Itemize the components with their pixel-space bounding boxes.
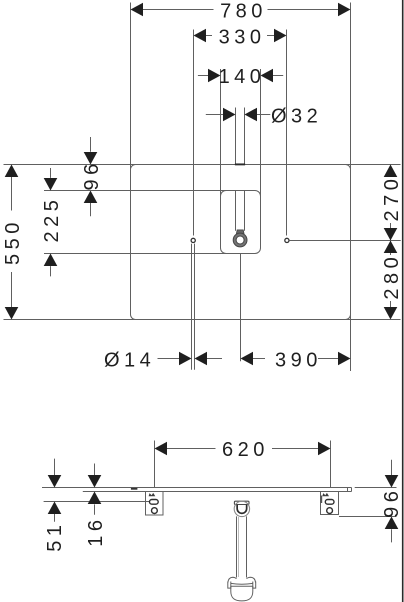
- left bracket hole: [152, 508, 158, 514]
- supply pipe edge lines (O32, plan): [235, 108, 237, 165]
- svg-text:780: 780: [220, 1, 267, 23]
- left bracket slot: [150, 500, 159, 505]
- siphon joint line: [231, 585, 253, 587]
- siphon cup: [231, 586, 253, 601]
- right bracket hole: [327, 508, 333, 514]
- svg-text:270: 270: [381, 175, 403, 222]
- faucet centre extension line: [240, 254, 242, 362]
- faucet keyway tab: [236, 230, 244, 234]
- drain pipe (front): [236, 516, 238, 577]
- siphon rim: [228, 577, 256, 582]
- O14 hole projection lines: [191, 244, 193, 370]
- left mounting hole: [191, 238, 195, 242]
- svg-text:140: 140: [219, 66, 266, 88]
- right bracket screw head: [322, 493, 329, 496]
- basin console outline (top view): [131, 165, 351, 320]
- page border right edge: [402, 0, 404, 602]
- left bracket screw head: [149, 493, 156, 496]
- svg-text:96: 96: [81, 159, 103, 190]
- console slab (front view): [42, 487, 352, 489]
- drain flange cap: [234, 501, 249, 504]
- faucet hole ring: [233, 233, 247, 247]
- svg-text:Ø32: Ø32: [271, 105, 322, 127]
- svg-text:330: 330: [219, 27, 266, 49]
- svg-text:51: 51: [44, 520, 66, 551]
- right wall bracket: [321, 492, 339, 515]
- pipe stub cap on rear edge: [235, 163, 245, 165]
- siphon rim lower edge: [231, 582, 253, 585]
- svg-text:Ø14: Ø14: [104, 349, 155, 371]
- svg-text:96: 96: [381, 487, 403, 518]
- right bracket slot: [325, 500, 334, 505]
- svg-text:390: 390: [275, 349, 322, 371]
- svg-text:280: 280: [381, 253, 403, 300]
- right bracket edge mark: [320, 496, 322, 504]
- right mounting hole: [285, 238, 289, 242]
- siphon side tab left: [228, 582, 231, 589]
- svg-text:225: 225: [41, 196, 63, 243]
- svg-text:550: 550: [2, 218, 24, 265]
- left wall bracket: [146, 492, 164, 516]
- svg-text:16: 16: [85, 515, 107, 546]
- supply pipe inside cutout: [235, 191, 237, 231]
- siphon side tab right: [253, 582, 256, 589]
- drain U hook: [237, 505, 247, 514]
- svg-text:620: 620: [222, 439, 269, 461]
- drain collar outer circle: [234, 501, 249, 516]
- slab left end block: [131, 488, 138, 490]
- slab right end tick: [347, 488, 349, 492]
- cutout rounded rectangle: [221, 191, 261, 254]
